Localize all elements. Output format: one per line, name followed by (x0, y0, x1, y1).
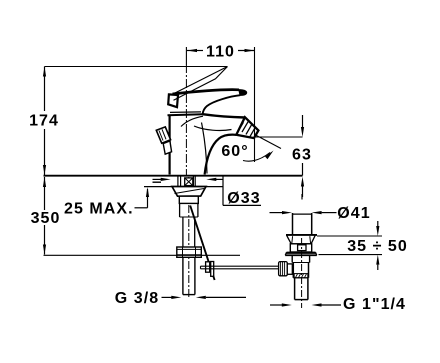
drain centerline (301, 238, 303, 308)
svg-text:110: 110 (206, 44, 235, 61)
drain flange lip (285, 252, 317, 255)
phantom raised handle outline (172, 67, 228, 101)
dimension 174 (29, 67, 59, 176)
G 3/8 inlet pipe (183, 257, 195, 294)
drain tail pipe bottom (295, 278, 308, 300)
svg-text:25 MAX.: 25 MAX. (64, 201, 134, 218)
hex nut on supply pipe (177, 247, 202, 257)
dimension 350 bottom reference line (44, 254, 241, 256)
svg-text:35 ÷ 50: 35 ÷ 50 (347, 238, 408, 255)
deck line (bidet surface) (44, 175, 303, 177)
faucet centerline below deck (188, 177, 190, 298)
svg-text:Ø41: Ø41 (337, 205, 370, 222)
pop-up pull rod (diagonal) (190, 206, 214, 281)
rod clamp (206, 262, 214, 277)
G 1-1/4 dimension (270, 296, 406, 313)
pop-up knob on body (156, 127, 171, 154)
svg-text:60°: 60° (221, 143, 248, 160)
svg-text:Ø33: Ø33 (227, 190, 260, 207)
handle lever (lowered position) (173, 90, 247, 114)
25 MAX. leader (64, 187, 149, 218)
threaded shank below deck (178, 177, 195, 187)
dimension 350 (31, 177, 61, 255)
dimension O33 label with leader (223, 176, 261, 207)
supply hose (180, 204, 198, 248)
G 3/8 dimension (115, 290, 246, 307)
drain tail pipe top (293, 194, 312, 235)
aerator (60 deg outlet) (236, 117, 258, 138)
svg-text:G 3/8: G 3/8 (115, 290, 159, 307)
dimension 63 (292, 115, 312, 197)
handle pivot boss (168, 94, 178, 107)
svg-text:174: 174 (29, 113, 59, 130)
deck underside line (25 MAX reference) (144, 186, 223, 188)
svg-text:63: 63 (292, 147, 312, 164)
dimension 110 right extension line (254, 47, 256, 162)
dimension 174 top reference line (45, 66, 228, 68)
drain neck (292, 255, 309, 262)
svg-text:G 1"1/4: G 1"1/4 (343, 296, 406, 313)
dimension 110 (187, 44, 255, 61)
horizontal linkage rod (201, 266, 281, 269)
dimension 110 top reference (centerline extension) (185, 47, 187, 65)
drain flange (pop-up waste top) (286, 235, 317, 252)
dimension O41 (270, 205, 371, 222)
dimension O33 arrows (153, 178, 224, 182)
svg-text:350: 350 (31, 210, 61, 227)
dimension 35-50 (347, 221, 408, 270)
mounting flange / horseshoe washer (172, 187, 206, 204)
60 degree angle annotation (221, 136, 281, 162)
knurled rod clamp on drain (279, 262, 293, 276)
faucet centerline above deck (185, 64, 187, 175)
faucet body (168, 112, 245, 175)
dimension 63 reference line (outlet level) (256, 136, 303, 138)
drain body with thread band (293, 263, 308, 278)
dimension 35-50 reference lines (317, 236, 382, 255)
